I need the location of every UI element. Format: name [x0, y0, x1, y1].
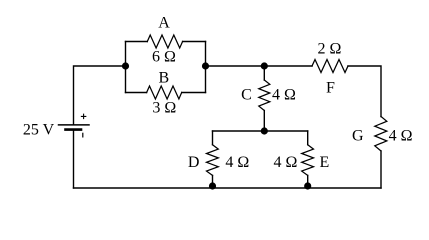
svg-text:G: G: [352, 128, 364, 145]
wire bottom horizontal: [74, 187, 382, 189]
wire C branch lower lead: [263, 111, 265, 132]
wire D branch upper lead: [212, 131, 214, 145]
svg-text:4 Ω: 4 Ω: [274, 154, 298, 171]
battery V1 short negative plate: [66, 128, 82, 131]
wire parallel loop right vertical: [205, 42, 207, 93]
wire parallel loop left vertical: [125, 42, 127, 93]
battery minus sign: [82, 133, 84, 137]
wire D branch lower lead: [212, 175, 214, 188]
wire from resistor F to top-right corner: [348, 66, 381, 117]
wire left vertical below battery: [73, 130, 75, 188]
resistor D 4-ohm zigzag: [207, 145, 219, 176]
wire D-E horizontal bar: [213, 130, 308, 132]
node dot at top of C branch: [261, 62, 268, 69]
resistor G 4-ohm zigzag: [375, 117, 387, 152]
svg-text:4 Ω: 4 Ω: [389, 128, 413, 145]
node dot at bottom of E branch: [304, 182, 311, 189]
svg-text:6 Ω: 6 Ω: [152, 49, 176, 66]
wire top-left horizontal from battery top to parallel left node: [74, 66, 126, 125]
battery plus sign: [81, 114, 85, 118]
svg-text:2 Ω: 2 Ω: [318, 41, 342, 58]
node dot at parallel right: [202, 62, 209, 69]
battery V1 long positive plate: [59, 124, 90, 126]
svg-text:3 Ω: 3 Ω: [152, 100, 176, 117]
node dot at bottom of D branch: [209, 182, 216, 189]
svg-text:25 V: 25 V: [23, 122, 55, 139]
svg-text:F: F: [326, 80, 335, 97]
wire C branch upper lead: [263, 66, 265, 80]
svg-text:D: D: [188, 154, 200, 171]
resistor F 2-ohm zigzag: [312, 60, 348, 73]
svg-text:B: B: [158, 70, 169, 87]
wire bottom branch right lead: [182, 92, 206, 94]
wire E branch lower lead: [307, 175, 309, 188]
resistor E 4-ohm zigzag: [302, 145, 314, 176]
svg-text:4 Ω: 4 Ω: [272, 87, 296, 104]
wire main from parallel right node to resistor F: [206, 65, 313, 67]
wire E branch upper lead: [307, 131, 309, 145]
resistor B 3-ohm zigzag: [147, 86, 182, 99]
resistor A 6-ohm zigzag: [147, 35, 182, 48]
resistor C 4-ohm zigzag: [259, 80, 270, 111]
wire top branch left lead: [126, 41, 148, 43]
svg-text:C: C: [241, 87, 252, 104]
wire bottom branch left lead: [126, 92, 147, 94]
node dot at bottom of C branch: [261, 127, 268, 134]
node dot at parallel left: [122, 62, 129, 69]
svg-text:4 Ω: 4 Ω: [225, 154, 249, 171]
wire right vertical below G to bottom-right corner: [380, 151, 382, 188]
wire top branch right lead: [183, 41, 206, 43]
svg-text:E: E: [320, 154, 330, 171]
svg-text:A: A: [158, 15, 170, 32]
